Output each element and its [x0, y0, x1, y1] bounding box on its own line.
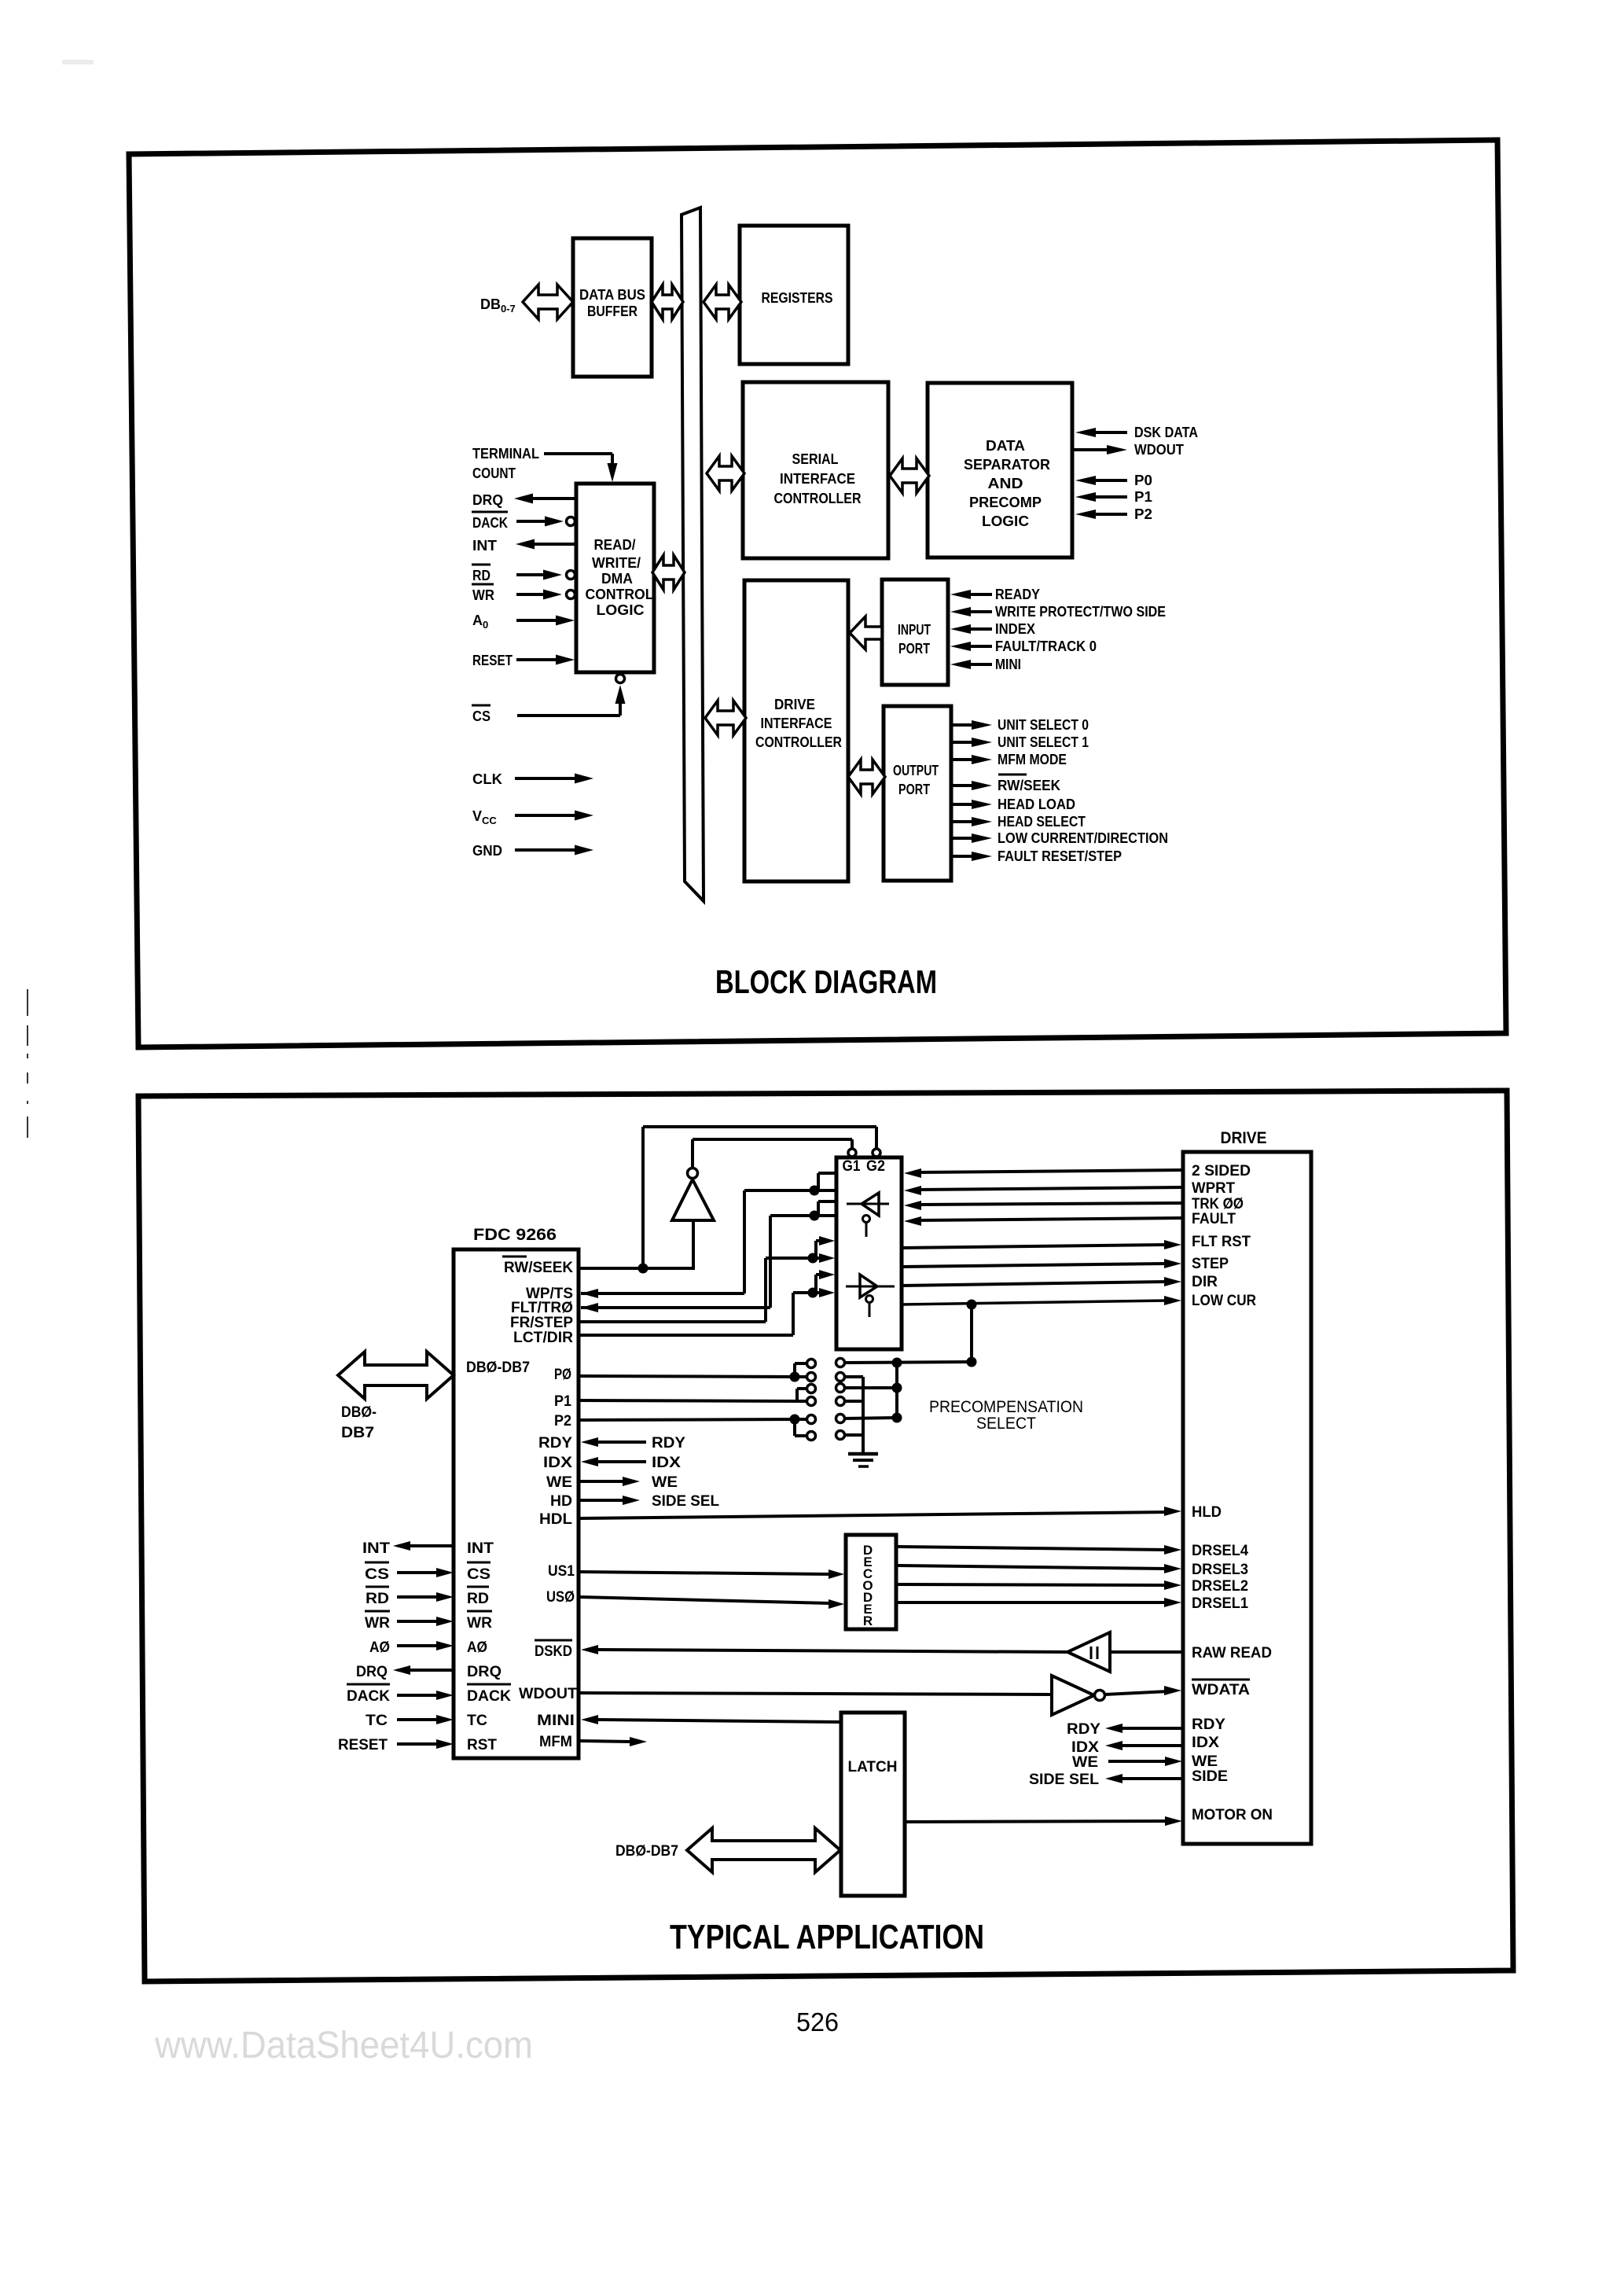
drive pin TRK 00 [1192, 1196, 1244, 1212]
svg-text:SIDE SEL: SIDE SEL [652, 1493, 719, 1510]
signal RESET [338, 1737, 454, 1753]
svg-text:DRSEL2: DRSEL2 [1192, 1578, 1248, 1595]
signal WDOUT [1074, 442, 1184, 458]
svg-text:TYPICAL APPLICATION: TYPICAL APPLICATION [670, 1918, 984, 1956]
wire LOW CUR [902, 1296, 1181, 1310]
svg-text:RAW READ: RAW READ [1192, 1645, 1272, 1661]
pin CS internal [467, 1562, 491, 1583]
input port signal WRITE PROTECT/TWO SIDE [950, 604, 1166, 620]
svg-text:WDOUT: WDOUT [1134, 442, 1184, 458]
wire SIDE to SIDE SEL [1029, 1772, 1183, 1788]
svg-text:DSKD: DSKD [535, 1643, 572, 1660]
FDC 9266 chip U1 [454, 1249, 579, 1758]
left margin registration dashes [27, 989, 28, 1138]
svg-text:MFM: MFM [539, 1734, 572, 1750]
svg-text:DRSEL1: DRSEL1 [1192, 1595, 1248, 1612]
pin HD [550, 1493, 572, 1510]
pin P0 [554, 1367, 571, 1383]
svg-text:DRQ: DRQ [356, 1664, 388, 1680]
signal A0 [472, 613, 575, 631]
bus arrow internal bus to read/write/dma logic [652, 555, 685, 590]
svg-text:HEAD LOAD: HEAD LOAD [998, 797, 1075, 812]
drive pin HLD [1192, 1504, 1222, 1521]
faint top watermark [62, 60, 94, 64]
node DB0-7 [480, 296, 516, 315]
svg-text:SEPARATOR: SEPARATOR [964, 457, 1050, 473]
output port signal HEAD LOAD [952, 797, 1075, 812]
typical application outer frame [138, 1091, 1513, 1981]
svg-text:WRITE/: WRITE/ [592, 555, 641, 571]
wire RW/SEEK [579, 1127, 876, 1274]
bus arrow internal bus to serial interface controller [707, 456, 744, 491]
wire MINI to latch [581, 1715, 841, 1724]
bus arrow DB0-7 to data bus buffer [523, 285, 573, 319]
svg-text:LCT/DIR: LCT/DIR [513, 1330, 573, 1346]
svg-text:INPUT: INPUT [898, 622, 931, 638]
data bus buffer block [573, 238, 652, 377]
drive pin DRSEL1 [1192, 1595, 1248, 1612]
svg-text:AØ: AØ [369, 1639, 390, 1656]
wire TRK 00 [904, 1201, 1183, 1210]
switch contact row 1 [807, 1359, 845, 1368]
signal INT [472, 538, 576, 554]
svg-text:PRECOMP: PRECOMP [969, 495, 1042, 510]
signal CS [472, 675, 626, 725]
svg-text:CS: CS [365, 1566, 389, 1583]
svg-text:DBØ-DB7: DBØ-DB7 [466, 1360, 530, 1376]
wire WE at chip [579, 1474, 678, 1491]
wire FAULT [904, 1216, 1183, 1226]
svg-text:G2: G2 [866, 1158, 885, 1175]
signal P1 [1075, 489, 1152, 505]
svg-text:INDEX: INDEX [995, 621, 1035, 637]
pin IDX [543, 1455, 572, 1471]
signal P2 [1075, 506, 1152, 522]
arrow input port to drive interface controller [850, 616, 882, 649]
svg-text:WDOUT: WDOUT [519, 1686, 577, 1702]
svg-text:RD: RD [472, 568, 491, 583]
bus arrow data bus buffer to internal bus [652, 285, 683, 319]
signal DRQ [472, 492, 576, 508]
drive pin LOW CUR [1192, 1293, 1256, 1309]
svg-text:UNIT SELECT 1: UNIT SELECT 1 [998, 734, 1089, 750]
signal INT [362, 1540, 454, 1557]
wire switch row3 tap [844, 1383, 902, 1393]
inverter U2 [672, 1168, 714, 1269]
svg-text:DRIVE: DRIVE [1221, 1129, 1267, 1147]
drive interface controller block [744, 580, 848, 881]
svg-text:FDC 9266: FDC 9266 [473, 1226, 557, 1244]
output port signal MFM MODE [952, 752, 1067, 767]
signal RD [366, 1587, 454, 1607]
svg-text:AØ: AØ [467, 1639, 487, 1656]
svg-text:PORT: PORT [898, 782, 930, 797]
pin RDY [538, 1435, 572, 1452]
svg-text:RESET: RESET [472, 653, 513, 668]
svg-text:FAULT: FAULT [1192, 1211, 1236, 1227]
input port signal INDEX [950, 621, 1035, 637]
signal VCC [472, 808, 593, 826]
svg-text:PRECOMPENSATION: PRECOMPENSATION [929, 1398, 1083, 1416]
wire P0 to switches [579, 1363, 807, 1382]
svg-text:DB7: DB7 [341, 1425, 374, 1441]
gate enable bubble G2 [873, 1149, 880, 1157]
svg-text:RDY: RDY [538, 1435, 572, 1452]
switch contact row 3 [807, 1384, 845, 1393]
svg-text:DACK: DACK [467, 1688, 511, 1705]
svg-text:GND: GND [472, 843, 502, 859]
svg-text:BLOCK DIAGRAM: BLOCK DIAGRAM [715, 963, 937, 1000]
pin US0 [546, 1589, 575, 1606]
pin MINI [537, 1713, 575, 1729]
bus arrow drive interface controller to output port [848, 760, 885, 794]
svg-text:HEAD SELECT: HEAD SELECT [998, 814, 1086, 830]
inverter U4 wdata [1052, 1676, 1105, 1715]
svg-text:DACK: DACK [472, 515, 508, 531]
svg-text:LOGIC: LOGIC [982, 513, 1029, 529]
svg-text:IDX: IDX [1071, 1739, 1099, 1756]
wire US0 to decoder [579, 1597, 844, 1609]
wire switch row5 tap [844, 1413, 902, 1423]
serial interface controller block [743, 382, 888, 558]
signal CLK [472, 771, 593, 787]
svg-text:RD: RD [467, 1591, 489, 1607]
drive pin STEP [1192, 1256, 1229, 1272]
pin INT internal [467, 1540, 494, 1557]
ground [848, 1454, 878, 1466]
svg-text:RW/SEEK: RW/SEEK [504, 1260, 573, 1276]
signal A0 [369, 1639, 454, 1656]
input port signal FAULT/TRACK 0 [950, 638, 1097, 654]
wire DRSEL4 [896, 1545, 1181, 1555]
pin RD internal [467, 1587, 489, 1607]
buffer symbol upper [847, 1193, 889, 1237]
svg-text:P1: P1 [1134, 489, 1152, 505]
signal DACK [347, 1684, 454, 1705]
pin P2 [554, 1413, 571, 1429]
wire switch row1 to low cur tap [844, 1304, 977, 1368]
svg-text:INT: INT [467, 1540, 494, 1557]
svg-text:INTERFACE: INTERFACE [780, 471, 855, 487]
watermark www.DataSheet4U.com [154, 2025, 533, 2066]
signal WR [365, 1611, 454, 1632]
drive pin DRSEL3 [1192, 1562, 1248, 1578]
svg-text:INT: INT [472, 538, 497, 554]
wire FLT RST [902, 1240, 1181, 1249]
drive pin RDY [1192, 1716, 1225, 1733]
svg-text:MINI: MINI [537, 1713, 575, 1729]
svg-text:TC: TC [467, 1713, 487, 1729]
svg-text:RESET: RESET [338, 1737, 388, 1753]
svg-text:REGISTERS: REGISTERS [762, 290, 833, 306]
buffer symbol lower [846, 1275, 895, 1317]
svg-text:LOW CURRENT/DIRECTION: LOW CURRENT/DIRECTION [998, 830, 1168, 846]
svg-text:RDY: RDY [1192, 1716, 1225, 1733]
pin P1 [554, 1393, 571, 1410]
svg-text:2 SIDED: 2 SIDED [1192, 1163, 1251, 1179]
drive pin DRSEL4 [1192, 1543, 1248, 1559]
svg-text:RST: RST [467, 1737, 497, 1753]
bus arrow internal bus to registers [704, 285, 741, 319]
svg-text:US1: US1 [548, 1563, 575, 1580]
output port signal UNIT SELECT 0 [952, 717, 1089, 733]
svg-text:TRK ØØ: TRK ØØ [1192, 1196, 1244, 1212]
svg-text:R: R [863, 1613, 873, 1628]
svg-text:WE: WE [652, 1474, 678, 1491]
wire DIR [902, 1277, 1181, 1286]
decoder block [846, 1535, 896, 1629]
wire US1 to decoder [579, 1569, 844, 1579]
drive pin SIDE [1192, 1768, 1228, 1785]
svg-text:CONTROL: CONTROL [586, 587, 654, 602]
pin WE [546, 1474, 572, 1491]
wire HD to SIDE SEL [579, 1493, 719, 1510]
svg-text:LATCH: LATCH [848, 1759, 898, 1775]
pin FR/STEP [510, 1315, 573, 1331]
wire 2 SIDED [904, 1168, 1183, 1178]
wire DRSEL1 [896, 1598, 1181, 1607]
wire select bus vertical [895, 1363, 898, 1418]
svg-text:STEP: STEP [1192, 1256, 1229, 1272]
input port block [882, 580, 948, 685]
page number 526 [796, 2007, 839, 2037]
svg-text:WE: WE [546, 1474, 572, 1491]
svg-text:IDX: IDX [1192, 1735, 1219, 1751]
drive block [1183, 1152, 1311, 1844]
svg-text:HD: HD [550, 1493, 572, 1510]
svg-text:FR/STEP: FR/STEP [510, 1315, 573, 1331]
wire STEP [902, 1259, 1181, 1268]
svg-text:SIDE SEL: SIDE SEL [1029, 1772, 1099, 1788]
svg-text:USØ: USØ [546, 1589, 575, 1606]
input port signal MINI [950, 657, 1021, 672]
drive pin FLT RST [1192, 1234, 1251, 1250]
pin FLT/TR0 [511, 1300, 573, 1316]
svg-text:RDY: RDY [652, 1435, 685, 1452]
switch contact row 4 [807, 1397, 845, 1406]
svg-text:P2: P2 [554, 1413, 571, 1429]
signal DRQ [356, 1664, 454, 1680]
drive pin MOTOR ON [1192, 1807, 1273, 1823]
pin WR internal [467, 1611, 492, 1632]
svg-text:CS: CS [472, 708, 491, 724]
svg-text:HDL: HDL [539, 1511, 572, 1528]
svg-text:WR: WR [472, 587, 494, 603]
svg-text:LOW CUR: LOW CUR [1192, 1293, 1256, 1309]
svg-text:DIR: DIR [1192, 1274, 1218, 1290]
svg-text:RDY: RDY [1067, 1721, 1100, 1738]
svg-text:DRQ: DRQ [467, 1664, 502, 1680]
pin A0 internal [467, 1639, 487, 1656]
wire RDY at drive [1067, 1721, 1183, 1738]
svg-text:PORT: PORT [898, 641, 930, 657]
pin RST internal [467, 1737, 497, 1753]
wire WE at drive [1072, 1754, 1182, 1771]
svg-text:G1: G1 [843, 1158, 861, 1175]
svg-text:RW/SEEK: RW/SEEK [998, 778, 1060, 793]
wire RAW READ [581, 1645, 1183, 1654]
svg-text:UNIT SELECT 0: UNIT SELECT 0 [998, 717, 1089, 733]
wire WDOUT to WDATA [579, 1686, 1181, 1695]
label DRIVE [1221, 1129, 1267, 1147]
svg-text:DRSEL3: DRSEL3 [1192, 1562, 1248, 1578]
svg-text:CONTROLLER: CONTROLLER [755, 734, 842, 750]
drive pin RAW READ [1192, 1645, 1272, 1661]
output port signal FAULT RESET/STEP [952, 848, 1122, 864]
drive pin IDX [1192, 1735, 1219, 1751]
svg-text:WRITE PROTECT/TWO SIDE: WRITE PROTECT/TWO SIDE [995, 604, 1166, 620]
svg-text:WR: WR [365, 1615, 390, 1632]
buffer U3 raw read [1067, 1632, 1110, 1672]
svg-text:COUNT: COUNT [472, 465, 516, 481]
wire DRSEL3 [896, 1564, 1181, 1573]
drive pin WPRT [1192, 1180, 1235, 1197]
wire inverter output to G1 [693, 1139, 852, 1168]
svg-text:READ/: READ/ [594, 537, 636, 553]
bus arrow DB0-DB7 to latch [687, 1828, 840, 1872]
signal GND [472, 843, 593, 859]
wire HDL to HLD [579, 1507, 1181, 1518]
svg-text:DRIVE: DRIVE [774, 697, 815, 712]
svg-text:DBØ-: DBØ- [341, 1404, 377, 1421]
wire WP/TS [581, 1173, 836, 1298]
signal RD [472, 565, 575, 583]
pin DSKD [535, 1640, 572, 1660]
pin DB0-DB7 internal [466, 1360, 530, 1376]
signal CS [365, 1562, 454, 1583]
output port signal UNIT SELECT 1 [952, 734, 1089, 750]
pin DRQ internal [467, 1664, 502, 1680]
svg-text:IDX: IDX [652, 1455, 681, 1471]
svg-text:MINI: MINI [995, 657, 1021, 672]
bus arrow DB0-DB7 to chip [338, 1352, 454, 1399]
pin LCT/DIR [513, 1330, 573, 1346]
svg-text:FLT/TRØ: FLT/TRØ [511, 1300, 573, 1316]
svg-text:INT: INT [362, 1540, 390, 1557]
svg-text:DSK DATA: DSK DATA [1134, 425, 1198, 440]
wire WPRT [904, 1186, 1183, 1195]
svg-text:TC: TC [366, 1713, 388, 1729]
wire P1 to switches [579, 1389, 807, 1401]
wire MFM [579, 1737, 647, 1746]
latch block [841, 1713, 905, 1896]
svg-text:PØ: PØ [554, 1367, 571, 1383]
signal P0 [1075, 473, 1152, 488]
svg-text:INTERFACE: INTERFACE [761, 716, 832, 731]
wire RDY at chip [581, 1435, 685, 1452]
title TYPICAL APPLICATION [670, 1918, 984, 1956]
svg-text:TERMINAL: TERMINAL [472, 446, 539, 462]
svg-text:WDATA: WDATA [1192, 1682, 1250, 1698]
svg-text:MOTOR ON: MOTOR ON [1192, 1807, 1273, 1823]
registers block [740, 226, 848, 364]
node DB0-DB7 latch label [615, 1843, 678, 1860]
signal DSK DATA [1075, 425, 1198, 440]
pin RW/SEEK [502, 1257, 573, 1276]
signal DACK [472, 512, 575, 531]
block diagram outer frame [129, 140, 1506, 1047]
wire terminal count [544, 454, 618, 482]
wire switch row2 to ground bus [844, 1377, 863, 1453]
pin US1 [548, 1563, 575, 1580]
svg-text:FLT RST: FLT RST [1192, 1234, 1251, 1250]
drive pin 2 SIDED [1192, 1163, 1251, 1179]
svg-text:FAULT RESET/STEP: FAULT RESET/STEP [998, 848, 1122, 864]
output port block [884, 706, 951, 881]
label PRECOMPENSATION SELECT [929, 1398, 1083, 1433]
wire latch MOTOR ON [905, 1816, 1182, 1826]
svg-text:MFM MODE: MFM MODE [998, 752, 1067, 767]
svg-text:READY: READY [995, 587, 1040, 602]
input port signal READY [950, 587, 1040, 602]
drive pin DRSEL2 [1192, 1578, 1248, 1595]
svg-text:DBØ-DB7: DBØ-DB7 [615, 1843, 678, 1860]
gate block G1 G2 [836, 1157, 902, 1349]
wire P2 to switches [579, 1415, 807, 1437]
switch contact row 5 [807, 1415, 845, 1424]
svg-text:IDX: IDX [543, 1455, 572, 1471]
svg-text:CLK: CLK [472, 771, 502, 787]
terminal count label [472, 446, 539, 481]
svg-text:P0: P0 [1134, 473, 1152, 488]
svg-text:BUFFER: BUFFER [587, 304, 637, 319]
pin HDL [539, 1511, 572, 1528]
chip title FDC 9266 [473, 1226, 557, 1244]
title BLOCK DIAGRAM [715, 963, 937, 1000]
pin TC internal [467, 1713, 487, 1729]
svg-text:CONTROLLER: CONTROLLER [774, 491, 862, 506]
svg-text:SELECT: SELECT [976, 1415, 1036, 1433]
svg-text:DATA BUS: DATA BUS [579, 287, 645, 303]
svg-text:OUTPUT: OUTPUT [893, 763, 939, 778]
drive pin WE [1192, 1753, 1218, 1770]
internal data bus bar [682, 208, 704, 901]
node DB0-DB7 label [341, 1404, 377, 1441]
wire IDX at chip [581, 1455, 681, 1471]
svg-text:WPRT: WPRT [1192, 1180, 1235, 1197]
read/write/dma control logic block [576, 484, 654, 672]
signal RESET [472, 653, 575, 668]
pin MFM [539, 1734, 572, 1750]
svg-text:DRSEL4: DRSEL4 [1192, 1543, 1248, 1559]
svg-text:DMA: DMA [601, 571, 633, 587]
svg-text:SIDE: SIDE [1192, 1768, 1228, 1785]
output port signal LOW CURRENT/DIRECTION [952, 830, 1168, 846]
svg-text:P2: P2 [1134, 506, 1152, 522]
svg-text:CS: CS [467, 1566, 491, 1583]
svg-text:WR: WR [467, 1615, 492, 1632]
wire LCT/DIR [579, 1270, 835, 1335]
switch contact row 2 [807, 1373, 845, 1382]
gate enable bubble G1 [848, 1149, 856, 1157]
svg-text:526: 526 [796, 2007, 839, 2037]
bus arrow internal bus to drive interface controller [705, 701, 746, 735]
signal TC [366, 1713, 454, 1729]
svg-text:LOGIC: LOGIC [597, 602, 645, 618]
svg-text:AND: AND [988, 476, 1023, 491]
svg-text:WE: WE [1192, 1753, 1218, 1770]
svg-text:www.DataSheet4U.com: www.DataSheet4U.com [154, 2025, 533, 2066]
pin DACK internal [467, 1684, 511, 1705]
svg-text:FAULT/TRACK 0: FAULT/TRACK 0 [995, 638, 1097, 654]
output port signal HEAD SELECT [952, 814, 1086, 830]
wire FLT/TR0 [581, 1201, 836, 1312]
wire switch row6 to ground bus [844, 1433, 863, 1437]
wire FR/STEP [579, 1236, 835, 1322]
svg-text:DRQ: DRQ [472, 492, 503, 508]
wire switch row4 to ground bus [844, 1400, 863, 1403]
svg-text:HLD: HLD [1192, 1504, 1222, 1521]
